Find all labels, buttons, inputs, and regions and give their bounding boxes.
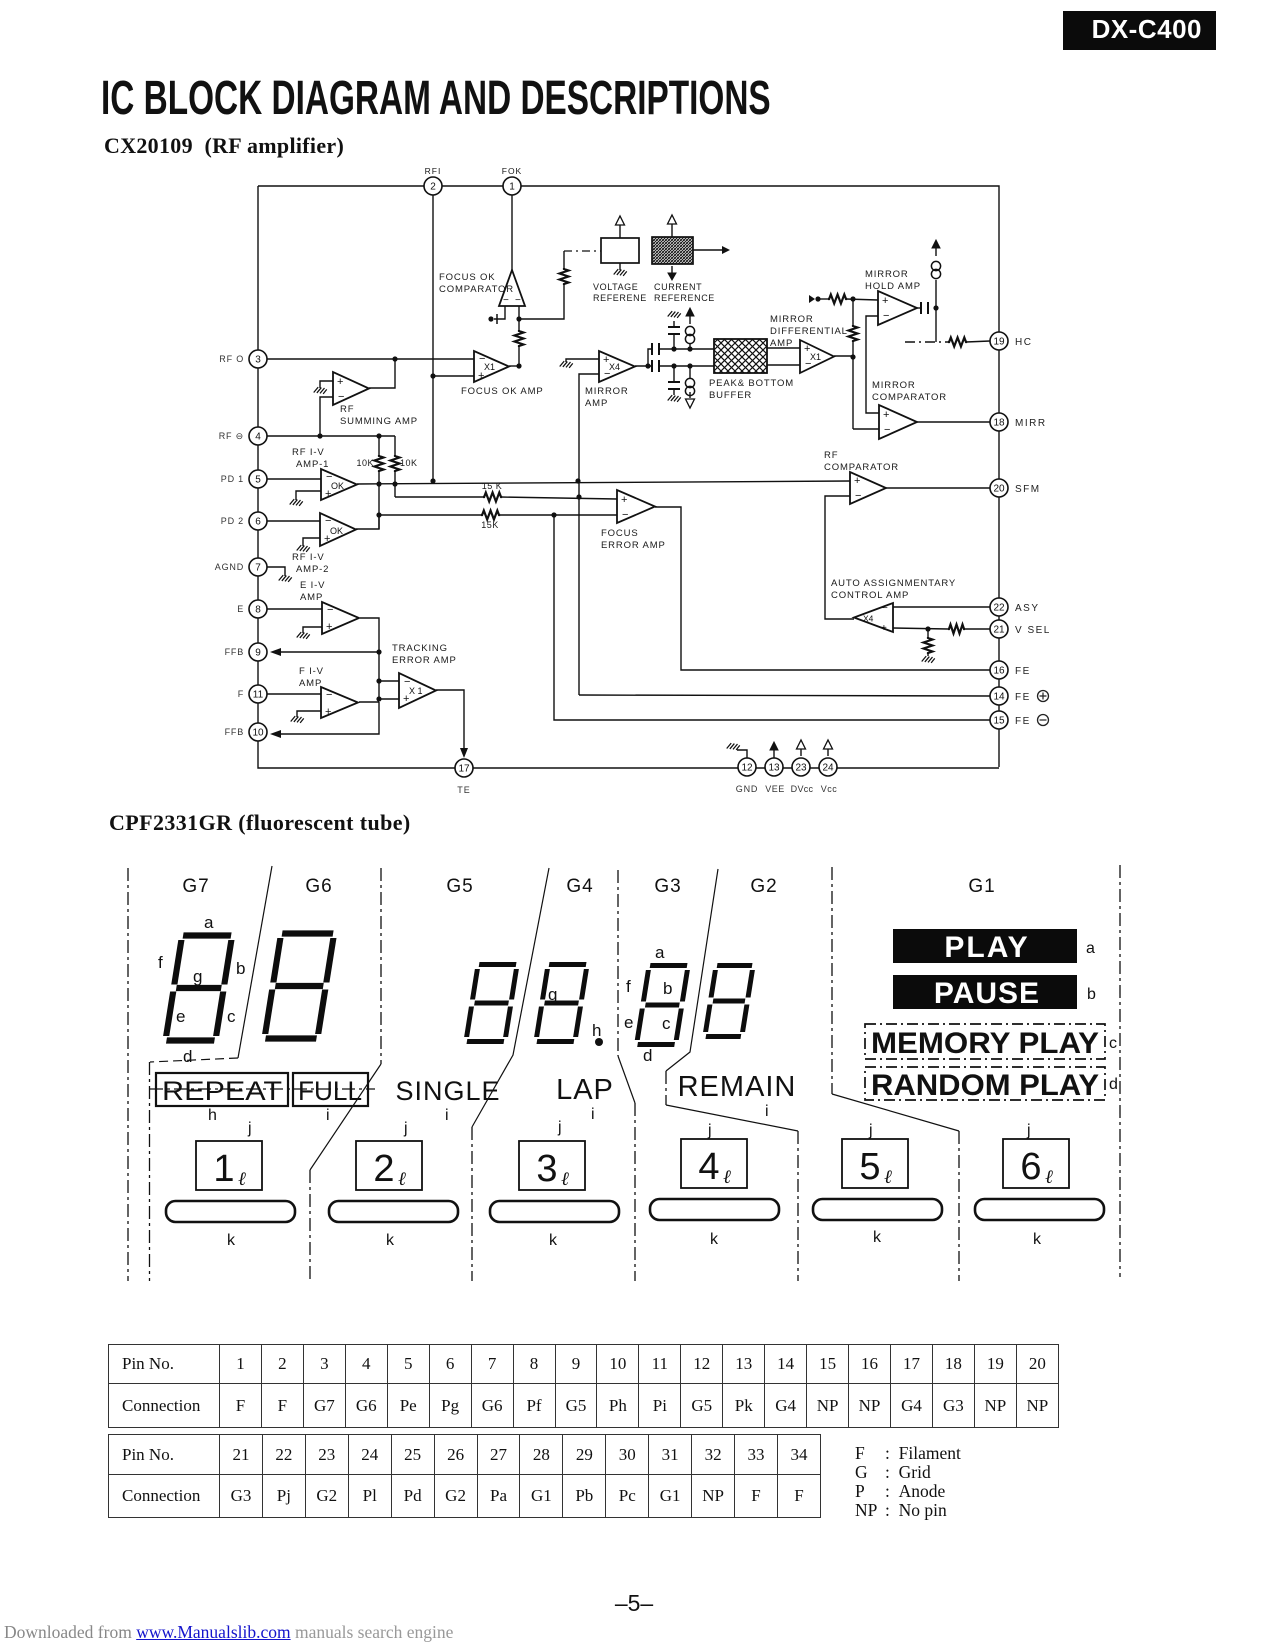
svg-text:G2: G2 <box>750 876 777 897</box>
svg-text:LAP: LAP <box>556 1074 614 1106</box>
hold amp output cap <box>917 302 939 314</box>
grid divider G6/G5 <box>310 868 381 1281</box>
comparator left input stub <box>488 306 505 324</box>
wire pin3 to X1 amp <box>267 356 474 361</box>
op-amp RF SUMMING AMP <box>333 372 369 405</box>
svg-text:e: e <box>176 1007 185 1026</box>
svg-text:FULL: FULL <box>298 1076 362 1106</box>
svg-text:k: k <box>227 1232 236 1249</box>
svg-text:−: − <box>327 604 333 616</box>
svg-text:PD 2: PD 2 <box>221 516 244 526</box>
focus error output to pin16 <box>655 507 990 670</box>
svg-text:4: 4 <box>255 432 261 443</box>
pin 19 HC <box>990 332 1032 350</box>
svg-text:9: 9 <box>255 648 261 659</box>
svg-text:F: F <box>238 689 244 699</box>
svg-text:RF O: RF O <box>219 354 244 364</box>
track digit box 6 <box>1003 1139 1069 1188</box>
label MIRROR COMPARATOR <box>872 380 947 403</box>
svg-text:−: − <box>622 509 628 521</box>
svg-text:−: − <box>883 310 889 322</box>
svg-text:MIRROR: MIRROR <box>770 314 814 325</box>
wire pin11 to F amp <box>267 693 321 695</box>
pin 13 VEE <box>765 758 785 794</box>
label FOCUS OK COMPARATOR <box>439 272 514 295</box>
op-amp RF COMPARATOR <box>850 472 886 504</box>
svg-text:1: 1 <box>213 1148 234 1190</box>
svg-text:3: 3 <box>536 1148 557 1190</box>
svg-text:f: f <box>158 953 163 972</box>
E amp output drop <box>360 618 382 702</box>
op-amp MIRROR COMPARATOR <box>879 405 917 439</box>
svg-text:COMPARATOR: COMPARATOR <box>439 284 514 295</box>
digit G7 (7-segment) <box>165 936 232 1041</box>
svg-text:MIRROR: MIRROR <box>865 269 909 280</box>
svg-text:j: j <box>403 1120 408 1137</box>
pin 16 FE <box>990 661 1031 679</box>
hold amp minus loop <box>866 316 879 413</box>
wire pin22 to minus <box>893 606 990 608</box>
tracking output to TE pin17 <box>436 690 468 758</box>
MEMORY PLAY box <box>865 1024 1105 1060</box>
svg-text:ℓ: ℓ <box>238 1169 246 1190</box>
F amp + ground <box>291 711 321 723</box>
svg-text:23: 23 <box>795 763 807 774</box>
pin 17 TE <box>455 759 473 795</box>
svg-text:VΕΕ: VΕΕ <box>765 784 785 794</box>
lower cap to ground <box>668 366 681 402</box>
lower current source <box>685 366 694 408</box>
svg-text:21: 21 <box>993 625 1005 636</box>
svg-text:−: − <box>503 295 509 306</box>
wire pin8 to E amp <box>267 608 322 610</box>
label F I-V AMP <box>299 666 324 689</box>
filament bar k3 <box>490 1201 619 1222</box>
svg-text:f: f <box>626 977 631 996</box>
svg-text:RF: RF <box>824 450 838 461</box>
X1 output wire <box>509 365 519 367</box>
pin 12 GND <box>736 758 758 794</box>
label RF I-V AMP-1 <box>292 447 329 470</box>
pin table 1-20 <box>108 1344 1059 1428</box>
svg-text:j: j <box>557 1119 562 1136</box>
svg-text:ERROR AMP: ERROR AMP <box>392 655 457 666</box>
label CURRENT REFERENCE <box>654 282 715 303</box>
section subtitle CPF2331GR <box>109 810 411 836</box>
svg-text:15K: 15K <box>481 520 499 530</box>
pin 4 RF - <box>219 427 267 445</box>
svg-text:3: 3 <box>255 355 261 366</box>
label FOCUS OK AMP <box>461 386 544 397</box>
pin 18 MIRR <box>990 413 1047 431</box>
footer <box>4 1622 453 1643</box>
wire 15K upper net <box>395 493 617 502</box>
coupling cap lower <box>652 360 714 372</box>
pin 8 E <box>237 600 267 618</box>
grid divider G4/G3 <box>618 870 635 1281</box>
wire to pin10 with arrow <box>270 702 379 738</box>
svg-text:FOK: FOK <box>502 166 522 176</box>
svg-text:h: h <box>208 1107 217 1124</box>
shunt resistor to ground <box>922 629 935 663</box>
pin 24 Vcc <box>819 758 837 794</box>
svg-text:CONTROL AMP: CONTROL AMP <box>831 590 909 601</box>
svg-text:−: − <box>882 603 888 614</box>
svg-text:G5: G5 <box>446 876 473 897</box>
hold amp input resistor <box>809 295 878 304</box>
PEAK & BOTTOM BUFFER box <box>714 339 767 373</box>
op-amp RF I-V AMP-1 <box>321 469 357 500</box>
grid divider G5/G4 <box>472 868 549 1281</box>
svg-text:G1: G1 <box>968 876 995 897</box>
comparator right leg to node <box>516 284 564 322</box>
filament bar k5 <box>813 1199 942 1220</box>
REPEAT box <box>156 1073 288 1106</box>
op-amp MIRROR HOLD AMP <box>878 291 917 325</box>
filament bar k6 <box>975 1199 1104 1220</box>
pin 9 FFB <box>225 643 267 661</box>
current reference output arrow <box>693 246 730 254</box>
svg-text:COMPARATOR: COMPARATOR <box>872 392 947 403</box>
wire pin4 line <box>267 433 395 438</box>
svg-text:AGND: AGND <box>215 562 244 572</box>
pin 7 AGND <box>215 558 267 576</box>
svg-text:RF ⊖: RF ⊖ <box>219 431 244 441</box>
segment labels G4 <box>548 985 601 1040</box>
wire X1 amp + input <box>433 375 474 377</box>
svg-text:BUFFER: BUFFER <box>709 390 752 401</box>
op-amp X4 AUTO ASSIGN (points left) <box>854 603 893 634</box>
track digit box 4 <box>681 1139 747 1188</box>
pin 20 SFM <box>990 479 1041 497</box>
svg-text:+: + <box>882 295 888 307</box>
current source at HC <box>931 240 940 342</box>
grid labels j row <box>247 1119 1031 1139</box>
svg-text:a: a <box>1086 940 1095 957</box>
svg-text:8: 8 <box>255 605 261 616</box>
svg-text:c: c <box>1109 1035 1117 1052</box>
IC outline frame <box>258 186 999 768</box>
svg-text:+: + <box>881 623 887 634</box>
svg-text:MEMORY PLAY: MEMORY PLAY <box>871 1027 1099 1060</box>
svg-text:22: 22 <box>993 603 1005 614</box>
FULL box <box>293 1073 368 1106</box>
svg-text:b: b <box>663 979 672 998</box>
svg-text:−: − <box>326 689 332 701</box>
wire pin21 with resistor <box>893 625 990 634</box>
op-amp X1 FOCUS OK AMP <box>474 351 509 382</box>
op-amp X1 MIRROR DIFFERENTIAL <box>800 340 834 373</box>
track digit box 1 <box>196 1141 262 1190</box>
svg-text:12: 12 <box>741 763 753 774</box>
svg-text:17: 17 <box>458 764 470 775</box>
svg-text:+: + <box>883 409 889 421</box>
svg-text:24: 24 <box>822 763 834 774</box>
X4 + ground <box>560 359 599 368</box>
svg-text:RF: RF <box>340 404 354 415</box>
svg-text:i: i <box>591 1106 595 1123</box>
wire pin6 to amp2 <box>267 520 320 522</box>
label E I-V AMP <box>300 580 325 603</box>
svg-text:13: 13 <box>768 763 780 774</box>
svg-text:10: 10 <box>252 728 264 739</box>
svg-text:b: b <box>1087 986 1096 1003</box>
segment labels G7 <box>158 913 245 1066</box>
pin 3 RF O <box>219 350 267 368</box>
summing amp + input ground <box>314 381 333 394</box>
track digit box 5 <box>842 1139 908 1188</box>
svg-text:V SEL: V SEL <box>1015 625 1051 636</box>
label FOCUS ERROR AMP <box>601 528 666 551</box>
svg-text:FOCUS OK: FOCUS OK <box>439 272 495 283</box>
svg-text:1: 1 <box>509 182 515 193</box>
svg-text:PAUSE: PAUSE <box>934 977 1040 1010</box>
filament bar k1 <box>166 1201 295 1222</box>
svg-text:ASY: ASY <box>1015 603 1040 614</box>
svg-text:FFB: FFB <box>225 727 244 737</box>
svg-text:e: e <box>624 1013 633 1032</box>
model badge DX-C400 <box>1063 11 1216 50</box>
pin 11 F <box>238 685 267 703</box>
resistor 10K right <box>391 436 418 497</box>
track digit box 2 <box>356 1141 422 1190</box>
F amp output join <box>359 701 379 703</box>
svg-text:k: k <box>710 1231 719 1248</box>
svg-text:−: − <box>855 490 861 502</box>
svg-text:2: 2 <box>430 182 436 193</box>
RANDOM PLAY box <box>865 1067 1105 1102</box>
svg-text:d: d <box>643 1046 652 1065</box>
upper cap to ground <box>668 311 681 349</box>
svg-text:E I-V: E I-V <box>300 580 325 591</box>
pin 21 V SEL <box>990 620 1051 638</box>
svg-text:j: j <box>707 1122 712 1139</box>
svg-text:5: 5 <box>859 1146 880 1188</box>
svg-text:k: k <box>873 1229 882 1246</box>
svg-text:ℓ: ℓ <box>723 1167 731 1188</box>
track digit box 3 <box>519 1141 585 1190</box>
grid divider G3/G2 <box>666 869 798 1281</box>
svg-text:X1: X1 <box>810 352 821 362</box>
riser resistor to diff output <box>849 299 858 429</box>
svg-text:ERROR AMP: ERROR AMP <box>601 540 666 551</box>
svg-text:RF I-V: RF I-V <box>292 447 325 458</box>
svg-text:CURRENT: CURRENT <box>654 282 702 292</box>
svg-text:g: g <box>548 985 557 1004</box>
digit G3 (7-segment) <box>637 966 689 1045</box>
svg-text:SFM: SFM <box>1015 484 1041 495</box>
svg-text:FOCUS OK AMP: FOCUS OK AMP <box>461 386 544 397</box>
label MIRROR AMP <box>585 386 629 409</box>
svg-text:g: g <box>193 967 202 986</box>
label AUTO ASSIGNMENTARY CONTROL AMP <box>831 578 956 601</box>
svg-text:G7: G7 <box>182 876 209 897</box>
svg-text:+: + <box>854 475 860 487</box>
svg-text:OK: OK <box>330 526 343 536</box>
amp2 + ground <box>297 538 320 552</box>
svg-text:18: 18 <box>993 418 1005 429</box>
svg-text:6: 6 <box>1020 1146 1041 1188</box>
svg-text:AUTO ASSIGNMENTARY: AUTO ASSIGNMENTARY <box>831 578 956 589</box>
svg-text:G4: G4 <box>566 876 593 897</box>
svg-text:FE: FE <box>1015 692 1031 703</box>
svg-text:DVcc: DVcc <box>791 784 814 794</box>
svg-text:AMP-2: AMP-2 <box>296 564 329 575</box>
svg-text:REFERENCE: REFERENCE <box>654 293 715 303</box>
svg-text:X4: X4 <box>609 362 620 372</box>
svg-text:d: d <box>1109 1076 1118 1093</box>
svg-text:j: j <box>247 1120 252 1137</box>
svg-text:a: a <box>204 913 214 932</box>
svg-text:HC: HC <box>1015 337 1032 348</box>
svg-text:15 K: 15 K <box>482 481 503 491</box>
svg-text:k: k <box>1033 1231 1042 1248</box>
svg-text:11: 11 <box>253 690 264 701</box>
digit G5 (7-segment) <box>466 965 517 1042</box>
legend <box>855 1444 961 1520</box>
svg-text:c: c <box>227 1007 236 1026</box>
label TRACKING ERROR AMP <box>392 643 457 666</box>
svg-text:5: 5 <box>255 475 261 486</box>
voltage reference box <box>601 216 639 276</box>
svg-text:−: − <box>884 424 890 436</box>
tube outline right boundary <box>1119 865 1121 1277</box>
svg-text:MIRROR: MIRROR <box>585 386 629 397</box>
svg-text:c: c <box>662 1014 671 1033</box>
section subtitle CX20109 <box>104 133 344 159</box>
wire 15K lower net <box>356 511 618 530</box>
svg-text:MIRROR: MIRROR <box>872 380 916 391</box>
ground at pin 12 <box>727 743 747 758</box>
upper current source <box>685 308 694 349</box>
svg-text:TRACKING: TRACKING <box>392 643 448 654</box>
label PEAK&BOTTOM BUFFER <box>709 378 794 401</box>
buffer outputs <box>767 348 800 365</box>
svg-text:7: 7 <box>255 563 261 574</box>
pin 15 FE- <box>990 711 1049 729</box>
svg-text:4: 4 <box>698 1146 719 1188</box>
svg-text:X4: X4 <box>863 614 874 624</box>
svg-text:FFB: FFB <box>225 647 244 657</box>
svg-text:ℓ: ℓ <box>398 1169 406 1190</box>
svg-text:DIFFERENTIAL: DIFFERENTIAL <box>770 326 848 337</box>
supply arrow pin 24 <box>824 740 833 756</box>
dashed wire to voltage reference <box>564 250 601 252</box>
svg-text:k: k <box>386 1232 395 1249</box>
svg-text:OK: OK <box>331 481 344 491</box>
filament labels k row <box>227 1229 1042 1249</box>
E amp + ground <box>297 627 322 639</box>
svg-text:G6: G6 <box>305 876 332 897</box>
svg-text:15: 15 <box>993 716 1005 727</box>
tracking amp input stubs <box>379 681 399 699</box>
svg-text:G3: G3 <box>654 876 681 897</box>
svg-text:+: + <box>326 621 332 633</box>
svg-text:PLAY: PLAY <box>944 931 1029 964</box>
digit G6 (7-segment) <box>264 934 334 1039</box>
pin 5 PD 1 <box>221 470 267 488</box>
grid divider G2/G1 <box>832 867 959 1281</box>
svg-text:14: 14 <box>993 692 1005 703</box>
amp1 + ground <box>290 491 321 506</box>
supply arrow pin 23 <box>797 740 806 756</box>
svg-text:6: 6 <box>255 517 261 528</box>
HC line with resistor <box>905 338 990 347</box>
supply arrow pin 13 <box>770 742 778 758</box>
feedback resistor of focus ok amp <box>515 319 524 369</box>
pin 14 FE+ <box>990 687 1049 705</box>
current reference box (hatched) <box>652 215 693 280</box>
op-amp TRACKING ERROR AMP X1 <box>399 673 436 708</box>
label RF I-V AMP-2 <box>292 552 329 575</box>
op-amp RF I-V AMP-2 <box>320 513 356 546</box>
svg-text:k: k <box>549 1232 558 1249</box>
svg-text:b: b <box>236 959 245 978</box>
label VOLTAGE REFERENE <box>593 282 647 303</box>
svg-text:ℓ: ℓ <box>884 1167 892 1188</box>
pin 7 ground stub <box>267 567 292 582</box>
svg-text:PEAK& BOTTOM: PEAK& BOTTOM <box>709 378 794 389</box>
svg-text:X 1: X 1 <box>409 686 423 696</box>
label RF SUMMING AMP <box>340 404 418 427</box>
svg-text:HOLD AMP: HOLD AMP <box>865 281 921 292</box>
X4 minus drop long riser <box>579 374 599 695</box>
svg-text:d: d <box>183 1047 192 1066</box>
decimal point G4 <box>595 1038 603 1046</box>
digit G2 (7-segment) <box>705 966 753 1037</box>
op-amp FOCUS OK COMPARATOR (points up) <box>499 270 525 306</box>
X4 output node <box>635 363 652 368</box>
svg-text:SINGLE: SINGLE <box>395 1076 500 1106</box>
PLAY indicator <box>893 929 1077 964</box>
svg-text:j: j <box>1026 1122 1031 1139</box>
pin 1 FOK <box>502 166 522 195</box>
page title <box>101 71 771 126</box>
svg-text:2: 2 <box>373 1148 394 1190</box>
svg-text:FE: FE <box>1015 666 1031 677</box>
wire to pin 18 <box>917 421 990 423</box>
label RF COMPARATOR <box>824 450 899 473</box>
wire FOK pin1 to comparator <box>511 195 513 270</box>
pin 23 DVcc <box>791 758 814 794</box>
wire RFI pin2 drop <box>430 195 435 481</box>
svg-text:20: 20 <box>993 484 1005 495</box>
svg-text:X1: X1 <box>484 362 495 372</box>
svg-text:RFI: RFI <box>425 166 442 176</box>
svg-text:COMPARATOR: COMPARATOR <box>824 462 899 473</box>
svg-text:VOLTAGE: VOLTAGE <box>593 282 638 292</box>
svg-text:Vcc: Vcc <box>821 784 838 794</box>
svg-text:19: 19 <box>993 337 1005 348</box>
anode labels h/i row <box>208 1103 769 1124</box>
svg-text:E: E <box>237 604 244 614</box>
label MIRROR HOLD AMP <box>865 269 921 292</box>
op-amp X4 MIRROR AMP <box>599 351 635 382</box>
svg-text:i: i <box>326 1107 330 1124</box>
resistor to voltage reference <box>560 251 569 285</box>
pin 22 ASY <box>990 598 1040 616</box>
page number <box>594 1590 674 1617</box>
svg-text:+: + <box>325 706 331 718</box>
pin 10 FFB <box>225 723 267 741</box>
summing amp output loop to pin3 net <box>369 359 395 388</box>
op-amp F I-V AMP <box>321 687 358 718</box>
svg-text:i: i <box>765 1103 769 1120</box>
svg-text:MIRR: MIRR <box>1015 418 1047 429</box>
op-amp E I-V AMP <box>322 602 359 634</box>
RF comparator minus loop <box>825 496 854 619</box>
pin 6 PD 2 <box>221 512 267 530</box>
